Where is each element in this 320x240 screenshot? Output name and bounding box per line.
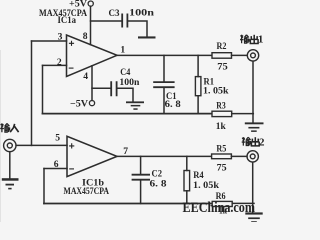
svg-text:1. 05k: 1. 05k	[193, 181, 220, 191]
svg-text:C3: C3	[109, 9, 120, 19]
svg-text:6: 6	[54, 159, 59, 170]
svg-text:100n: 100n	[129, 9, 155, 19]
svg-text:C4: C4	[120, 68, 130, 78]
svg-text:1: 1	[120, 45, 125, 56]
svg-text:R2: R2	[217, 42, 227, 52]
svg-text:4: 4	[83, 71, 88, 82]
svg-text:MAX457CPA: MAX457CPA	[64, 187, 110, 197]
svg-text:EEChina.com: EEChina.com	[183, 200, 256, 216]
svg-text:7: 7	[123, 146, 128, 157]
svg-text:C2: C2	[152, 169, 163, 179]
svg-text:2: 2	[57, 57, 62, 68]
svg-text:1. 05k: 1. 05k	[203, 87, 229, 97]
svg-text:−5V: −5V	[70, 99, 88, 109]
svg-text:6. 8: 6. 8	[165, 100, 181, 110]
svg-text:IC1a: IC1a	[58, 16, 77, 26]
svg-text:75: 75	[217, 63, 228, 73]
svg-text:1k: 1k	[216, 122, 227, 132]
svg-text:75: 75	[217, 163, 227, 173]
svg-text:R5: R5	[216, 144, 226, 154]
svg-text:6. 8: 6. 8	[150, 179, 167, 189]
svg-text:3: 3	[58, 31, 63, 42]
svg-text:100n: 100n	[119, 78, 140, 88]
svg-text:5: 5	[55, 133, 60, 144]
svg-text:8: 8	[83, 31, 88, 42]
svg-text:R4: R4	[193, 171, 204, 181]
svg-text:R3: R3	[216, 102, 226, 112]
